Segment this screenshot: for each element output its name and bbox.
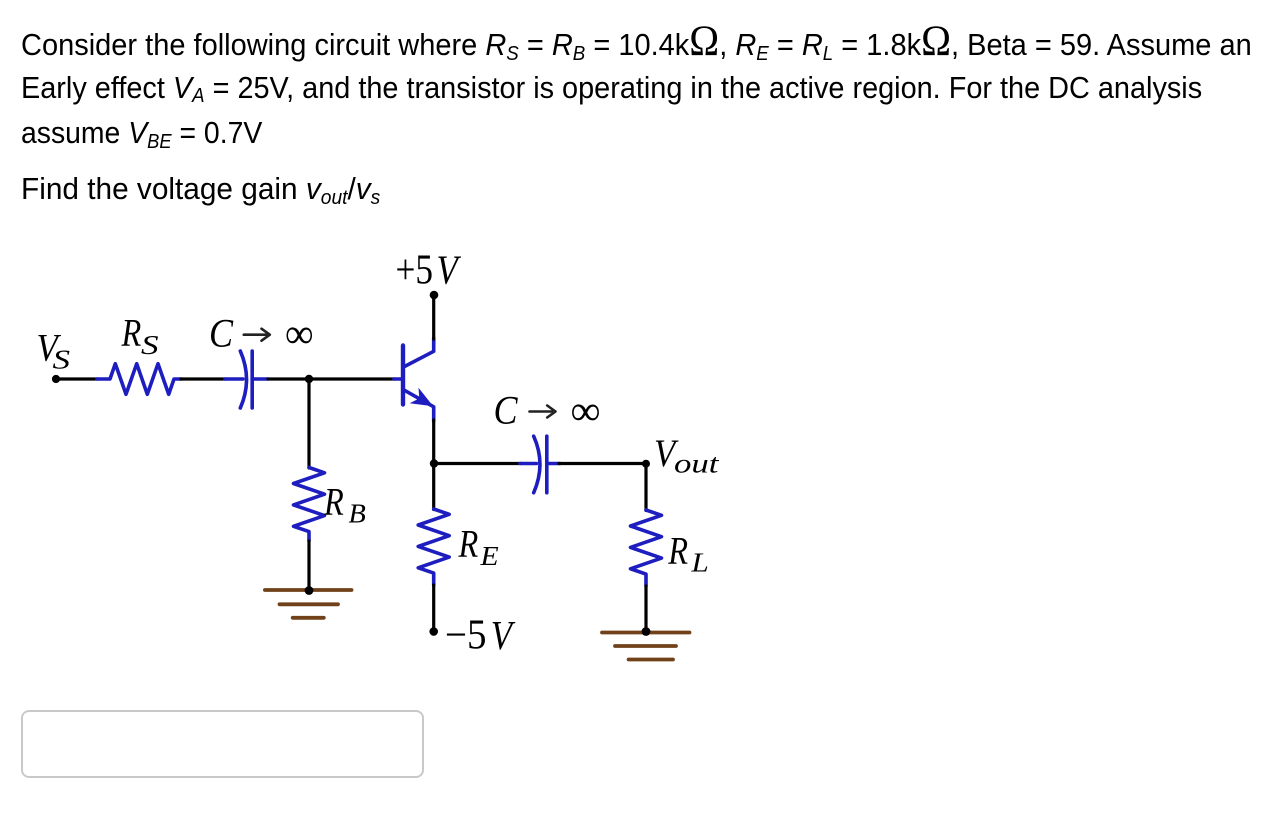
resistor RB [294, 468, 325, 542]
transistor Q1 emitter arrow [410, 388, 434, 407]
label C1 "C → ∞" [209, 312, 314, 358]
resistor RE [418, 509, 449, 585]
resistor RL [631, 510, 662, 586]
svg-text:∞: ∞ [285, 312, 314, 358]
svg-text:E: E [479, 542, 498, 571]
wire RB to ground G1 [307, 541, 310, 591]
svg-text:R: R [323, 480, 344, 524]
ground G2 node dot [642, 627, 651, 636]
svg-text:C: C [209, 312, 234, 356]
supply node +5V [430, 291, 439, 300]
wire node B down to RB [307, 379, 310, 468]
label RE [458, 522, 499, 572]
svg-text:R: R [121, 311, 142, 355]
wire C1 to node B [268, 377, 309, 380]
resistor RS [97, 364, 181, 395]
problem statement paragraph [21, 23, 1252, 71]
label RL [667, 528, 708, 578]
wire RL to ground G2 [644, 586, 647, 632]
transistor Q1 base bar [401, 346, 405, 405]
base lead (blue) [394, 377, 402, 381]
label C2 "C → ∞" [494, 388, 601, 434]
wire Vs to RS [56, 377, 98, 380]
ground G1 [265, 590, 352, 618]
label RS [121, 311, 159, 360]
svg-text:L: L [690, 548, 708, 578]
svg-text:−5: −5 [445, 613, 487, 659]
svg-text:+5: +5 [396, 248, 434, 294]
svg-text:C: C [494, 389, 519, 433]
node Vs [52, 375, 60, 383]
find gain line [21, 167, 380, 215]
svg-text:B: B [349, 498, 366, 528]
svg-text:R: R [458, 522, 479, 566]
wire collector to +5V [432, 295, 435, 339]
ground G1 node dot [305, 586, 314, 595]
answer input box [21, 710, 424, 778]
wire node B to base [309, 377, 395, 380]
svg-text:∞: ∞ [571, 388, 601, 434]
svg-text:R: R [667, 528, 688, 572]
capacitor C2 [520, 436, 560, 493]
wire emitter to node E [432, 420, 435, 464]
label -5V [445, 613, 515, 659]
wire RS to C1 [181, 377, 226, 380]
wire node E down to RE [432, 464, 435, 510]
svg-text:out: out [674, 449, 720, 479]
node E (emitter junction) [430, 459, 438, 467]
svg-text:V: V [491, 613, 516, 658]
ground G2 [602, 633, 690, 660]
wire node E to C2 [434, 462, 521, 465]
label RB [323, 480, 366, 529]
node B (base junction) [305, 375, 313, 383]
label Vs [37, 327, 71, 375]
svg-text:S: S [53, 344, 71, 374]
transistor Q1 collector lead [405, 338, 434, 367]
capacitor C1 [225, 351, 268, 408]
transistor Q1 emitter lead [405, 390, 434, 421]
label Vout [654, 432, 720, 478]
wire C2 to node Vout [559, 462, 646, 465]
wire RE to -5V [432, 585, 435, 632]
wire Vout down to RL [644, 464, 647, 511]
svg-text:S: S [141, 330, 159, 360]
node Vout [642, 460, 650, 468]
label +5V [396, 248, 462, 294]
svg-text:V: V [437, 248, 462, 293]
supply node -5V [429, 627, 438, 636]
